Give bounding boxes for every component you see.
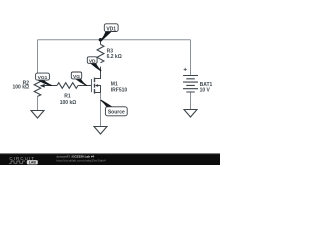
CircuitLab logo waveform [9, 161, 25, 163]
node label Source [105, 107, 127, 116]
wire: left vertical to potentiometer top [37, 40, 39, 80]
resistor R3 [97, 44, 104, 62]
potentiometer R2 wiper arrow [40, 84, 45, 88]
wire: node to R3 [100, 40, 102, 45]
svg-text:VD: VD [89, 58, 96, 64]
transistor M1 channel segments [94, 78, 96, 94]
wire: battery bottom lead [190, 92, 192, 109]
svg-text:IRF510: IRF510 [111, 87, 128, 93]
wire: battery top lead [190, 40, 192, 76]
CircuitLab logo LAB box [27, 160, 38, 164]
flag pointer of VD1 [100, 31, 112, 41]
svg-text:VD1: VD1 [106, 26, 116, 32]
transistor M1 drain lead [95, 67, 101, 79]
resistor R1 [57, 83, 78, 89]
flag pointer of VG [75, 79, 88, 86]
bottom black bar [0, 153, 220, 165]
node at top rail [99, 38, 103, 42]
svg-text:LAB: LAB [29, 161, 37, 165]
svg-text:VG1: VG1 [38, 75, 48, 81]
node label VG [71, 72, 81, 79]
wire: pot bottom to ground [37, 96, 39, 110]
node label VG1 [36, 73, 50, 80]
svg-text:Source: Source [108, 110, 125, 116]
flag pointer of VD [90, 63, 102, 71]
wire: top rail from left corner to battery [38, 39, 191, 41]
svg-text:100 kΩ: 100 kΩ [60, 100, 77, 106]
ground under battery [184, 110, 197, 118]
flag pointer of VG1 [37, 80, 52, 86]
flag pointer of Source label [100, 100, 113, 107]
wire: wiper to R1 [44, 85, 57, 87]
node label VD [87, 57, 97, 64]
transistor M1 source lead [95, 92, 101, 94]
battery plus sign [184, 68, 187, 71]
ground under M1 source [94, 127, 107, 135]
svg-text:100 kΩ: 100 kΩ [12, 85, 29, 91]
node label VD1 [104, 24, 118, 32]
svg-text:VG: VG [73, 74, 80, 80]
ground under R2 [31, 111, 44, 119]
battery BAT1 plates [183, 76, 198, 93]
transistor M1 gate bar [91, 79, 93, 92]
svg-text:R1: R1 [64, 94, 71, 100]
wire: MOSFET source down to ground [100, 93, 102, 127]
svg-text:http://circuitlab.com/c/wkg35m: http://circuitlab.com/c/wkg35m3/lab4 [57, 159, 106, 163]
svg-text:10 V: 10 V [200, 87, 211, 93]
transistor M1 body arrow [97, 86, 101, 93]
svg-text:6.2 kΩ: 6.2 kΩ [107, 54, 122, 60]
wire: R1 to gate [78, 85, 92, 87]
potentiometer R2 body [34, 80, 41, 97]
